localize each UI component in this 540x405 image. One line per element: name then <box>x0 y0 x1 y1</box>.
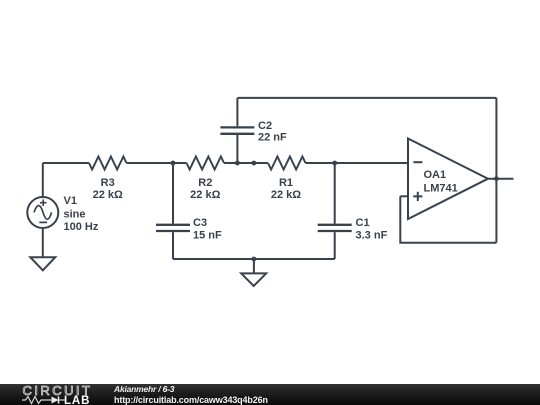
svg-text:22 kΩ: 22 kΩ <box>93 189 123 201</box>
wire: stub to ground <box>253 259 255 273</box>
plus mark <box>40 199 47 206</box>
node: C1 top junction <box>332 161 337 166</box>
svg-text:V1: V1 <box>64 195 77 207</box>
wire: node to C3 top plate <box>172 163 174 224</box>
wire: R3 to R2 <box>127 162 187 164</box>
wire: R2 to R1 <box>224 162 268 164</box>
wire: R1 to op-amp inverting input <box>306 162 409 164</box>
svg-text:LM741: LM741 <box>424 183 458 195</box>
minus mark <box>39 221 47 223</box>
capacitor C1 <box>318 163 388 259</box>
footer title text <box>114 384 174 394</box>
svg-text:R1: R1 <box>279 177 293 189</box>
capacitor C3 <box>156 163 222 259</box>
capacitor C2 <box>220 98 287 163</box>
voltage source V1 <box>27 195 99 233</box>
op-amp OA1 <box>408 139 488 220</box>
wire: feedback top <box>237 97 496 99</box>
wire: V1 to main wire <box>42 163 44 198</box>
svg-text:LAB: LAB <box>64 395 90 405</box>
plus pin mark <box>413 192 422 201</box>
svg-text:22 kΩ: 22 kΩ <box>190 189 220 201</box>
svg-text:C2: C2 <box>258 120 272 132</box>
node: C2 bottom junction <box>235 161 240 166</box>
sine symbol <box>34 206 52 220</box>
node: junction after R3 / C3 top <box>171 161 176 166</box>
svg-text:OA1: OA1 <box>424 169 447 181</box>
svg-text:100 Hz: 100 Hz <box>64 221 99 233</box>
wire: bottom rail <box>173 258 335 260</box>
node: junction between C2 and R1 <box>252 161 257 166</box>
footer url text <box>114 395 268 405</box>
wire: bottom loop to non-inverting input <box>400 196 496 242</box>
svg-text:3.3 nF: 3.3 nF <box>356 230 388 242</box>
CircuitLab logo <box>21 384 121 405</box>
svg-text:22 nF: 22 nF <box>258 131 287 143</box>
svg-text:sine: sine <box>64 208 86 220</box>
node: output junction <box>494 176 499 181</box>
resistor squiggle <box>22 397 46 404</box>
ground (below V1) <box>30 257 55 270</box>
svg-text:R3: R3 <box>101 177 115 189</box>
diode <box>52 397 59 404</box>
wire: non-inverting input <box>400 195 408 197</box>
svg-text:C3: C3 <box>193 217 207 229</box>
ground (bottom rail) <box>241 273 266 286</box>
svg-text:22 kΩ: 22 kΩ <box>271 189 301 201</box>
resistor R3 <box>89 157 127 201</box>
wire: feedback right vertical <box>495 98 497 243</box>
svg-text:15 nF: 15 nF <box>193 230 222 242</box>
wire: V1 bottom to ground <box>42 229 44 258</box>
resistor R2 <box>187 157 225 201</box>
wire: output stub <box>488 178 514 180</box>
minus pin mark <box>413 161 422 163</box>
svg-text:R2: R2 <box>198 177 212 189</box>
svg-text:C1: C1 <box>356 217 370 229</box>
footer bar <box>0 384 540 405</box>
wire: V1 top to R3 <box>43 162 89 164</box>
node: ground junction on bottom rail <box>252 257 257 262</box>
resistor R1 <box>268 157 306 201</box>
